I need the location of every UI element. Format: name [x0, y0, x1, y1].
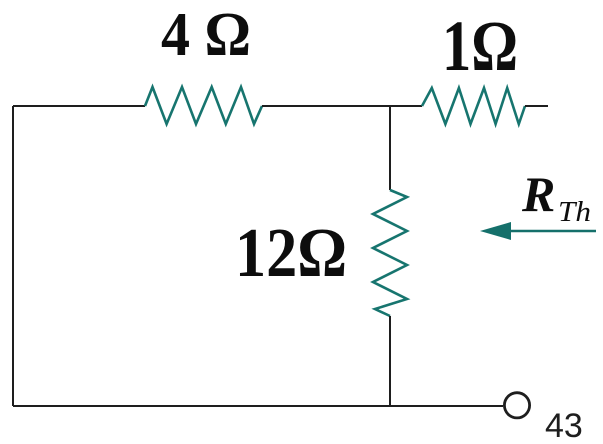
svg-text:4 Ω: 4 Ω: [161, 1, 251, 69]
resistor 4 ohm (horizontal zigzag): [145, 87, 262, 124]
svg-text:Th: Th: [558, 197, 591, 228]
wire: top horizontal from top-left corner to 4-ohm resistor: [13, 105, 145, 107]
wire: middle vertical from node A down to 12-ohm resistor: [389, 106, 391, 190]
wire: middle vertical from 12-ohm resistor down to bottom wire: [389, 316, 391, 406]
svg-text:12Ω: 12Ω: [235, 215, 347, 292]
svg-text:43: 43: [545, 407, 583, 444]
terminal b (open circle): [504, 393, 529, 418]
wire: left vertical side: [12, 106, 14, 406]
wire: top horizontal from 4-ohm resistor through node A to 1-ohm resistor: [262, 105, 422, 107]
resistor 1 ohm (horizontal zigzag): [422, 88, 525, 124]
wire: top right stub after 1-ohm resistor (open terminal): [525, 105, 548, 107]
svg-text:1Ω: 1Ω: [442, 6, 518, 86]
label R_Th: [521, 166, 591, 228]
wire: bottom horizontal from bottom-left corner to terminal circle: [13, 405, 503, 407]
svg-text:R: R: [521, 166, 555, 222]
arrow R_Th (pointing left): [480, 222, 596, 240]
resistor 12 ohm (vertical zigzag): [373, 190, 407, 316]
